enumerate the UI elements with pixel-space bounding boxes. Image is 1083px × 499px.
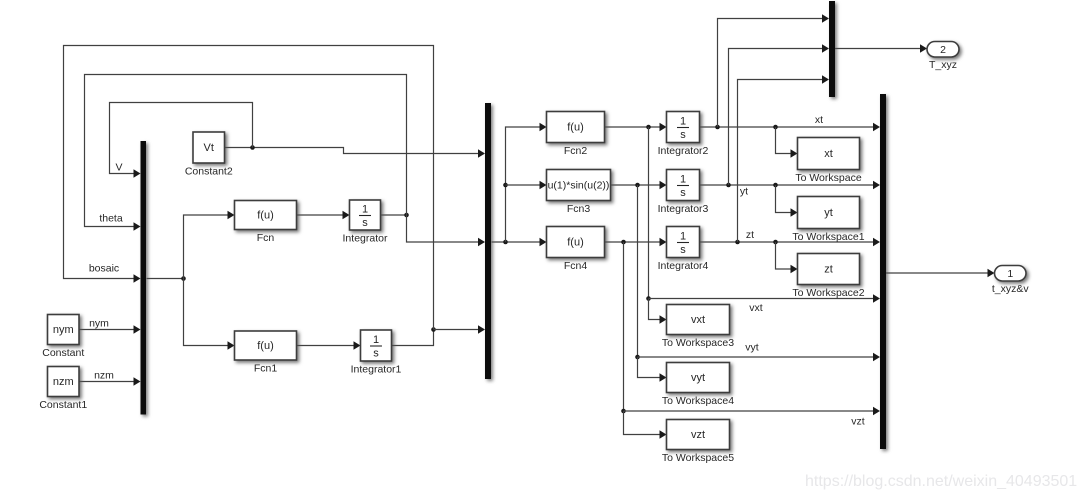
arrowhead into Fcn1 input — [228, 341, 235, 349]
constant Constant1 (nzm) — [48, 367, 80, 397]
svg-text:nym: nym — [89, 318, 109, 330]
node yt junction A — [726, 183, 731, 188]
svg-text:vyt: vyt — [745, 342, 759, 354]
svg-text:1: 1 — [680, 116, 686, 128]
arrowhead into Mux1 input V — [134, 169, 141, 177]
to-workspace block To Workspace4 (vyt) — [667, 363, 730, 393]
wire Fcn2 to Integrator2 — [605, 126, 666, 128]
svg-text:u(1)*sin(u(2)): u(1)*sin(u(2)) — [548, 180, 610, 192]
node vyt junction — [635, 355, 640, 360]
arrowhead into Mux2 input 2 — [478, 238, 485, 246]
wire V feedback loop to Mux1 — [110, 103, 253, 174]
integrator block Integrator — [350, 200, 381, 230]
arrowhead into Integrator input — [343, 211, 350, 219]
arrowhead into Fcn3 input — [540, 181, 547, 189]
arrowhead into Mux1 input bosaic — [134, 274, 141, 282]
svg-text:theta: theta — [99, 213, 123, 225]
svg-text:1: 1 — [680, 174, 686, 186]
integrator block Integrator2 — [667, 112, 700, 143]
wire yt drop to To Workspace1 — [776, 185, 797, 213]
svg-text:Integrator4: Integrator4 — [658, 260, 709, 272]
wire Mux2 output trunk to Fcn4 — [492, 241, 546, 243]
to-workspace block To Workspace2 (zt) — [798, 254, 860, 285]
svg-text:yt: yt — [740, 186, 748, 198]
svg-text:1: 1 — [373, 334, 379, 346]
svg-text:bosaic: bosaic — [89, 263, 119, 275]
svg-text:Fcn2: Fcn2 — [564, 145, 588, 157]
wire Integrator3 output yt row — [700, 184, 879, 186]
wire Fcn4 to Integrator4 — [605, 241, 666, 243]
arrowhead into Mux3 yt — [873, 181, 880, 189]
node Fcn3 output junction — [635, 183, 640, 188]
mux Mux3 (right bar) — [880, 94, 886, 449]
arrowhead into Fcn2 input — [540, 123, 547, 131]
wire vxt drop to To Workspace3 — [649, 299, 666, 320]
svg-text:Constant1: Constant1 — [39, 399, 87, 411]
to-workspace block To Workspace5 (vzt) — [667, 420, 730, 450]
outport 2 T_xyz — [927, 42, 959, 58]
arrowhead into Mux3 zt — [873, 238, 880, 246]
svg-text:Fcn3: Fcn3 — [567, 203, 591, 215]
wire zt drop to To Workspace2 — [776, 242, 797, 269]
arrowhead into To Workspace — [791, 149, 798, 157]
wire Integrator1 junction to Mux2 — [434, 329, 485, 331]
node Mux2 fanout junction — [503, 240, 508, 245]
svg-text:vyt: vyt — [691, 372, 705, 384]
wire Constant nym to Mux1 — [79, 329, 139, 331]
svg-text:To Workspace5: To Workspace5 — [662, 452, 734, 464]
arrowhead into Mux1 input nym — [134, 325, 141, 333]
svg-text:s: s — [373, 348, 379, 360]
to-workspace block To Workspace (xt) — [798, 138, 860, 170]
svg-text:To Workspace1: To Workspace1 — [792, 231, 864, 243]
arrowhead into Fcn input — [228, 211, 235, 219]
svg-text:Vt: Vt — [204, 142, 214, 154]
wire zt up to Mux4 — [738, 80, 828, 243]
svg-text:Integrator1: Integrator1 — [351, 364, 402, 376]
svg-text:1: 1 — [362, 204, 368, 216]
node fanout junction Fcn3 — [503, 183, 508, 188]
svg-text:s: s — [362, 217, 368, 229]
svg-text:f(u): f(u) — [257, 340, 274, 352]
arrowhead into To Workspace4 — [660, 373, 667, 381]
wire Fcn1 to Integrator1 — [297, 345, 359, 347]
wire Integrator output down to Mux2 — [407, 215, 485, 242]
svg-text:f(u): f(u) — [257, 210, 274, 222]
wire vxt branch down — [648, 127, 650, 299]
fcn block Fcn f(u) — [235, 201, 297, 230]
svg-text:T_xyz: T_xyz — [929, 59, 957, 71]
constant Constant (nym) — [48, 315, 80, 345]
node Integrator output junction — [404, 213, 409, 218]
arrowhead into Mux4 input 1 — [822, 14, 829, 22]
svg-text:nym: nym — [53, 324, 74, 336]
arrowhead into Mux3 vyt — [873, 353, 880, 361]
fcn block Fcn1 f(u) — [235, 331, 297, 360]
svg-text:To Workspace: To Workspace — [795, 172, 861, 184]
wire Fcn3 to Integrator3 — [611, 184, 666, 186]
node Integrator1 output junction — [431, 327, 436, 332]
wire Integrator4 output zt row — [700, 241, 879, 243]
mux Mux2 (middle bar) — [485, 103, 491, 379]
arrowhead into outport 1 — [988, 269, 995, 277]
fcn block Fcn3 u(1)*sin(u(2)) — [547, 170, 611, 201]
wire vzt branch down — [623, 242, 625, 411]
svg-text:nzm: nzm — [53, 376, 74, 388]
node zt junction B — [773, 240, 778, 245]
wire vxt to Demux bar — [649, 298, 879, 300]
wire Mux1 output trunk — [147, 278, 184, 280]
wire xt drop to To Workspace — [776, 127, 797, 154]
arrowhead into Integrator1 input — [354, 341, 361, 349]
wire Integrator2 output xt row — [700, 126, 879, 128]
wire Integrator1 output to junction — [392, 330, 434, 346]
svg-text:Constant2: Constant2 — [185, 166, 233, 178]
arrowhead into Integrator4 input — [660, 238, 667, 246]
mux Mux4 (top bar) — [829, 1, 835, 97]
node xt junction B — [773, 125, 778, 130]
fcn block Fcn4 f(u) — [547, 227, 605, 258]
svg-text:zt: zt — [746, 229, 754, 241]
mux Mux1 (left bar) — [141, 141, 147, 415]
wire xt up to Mux4 — [718, 19, 828, 128]
wire Fcn to Integrator — [297, 214, 348, 216]
arrowhead into To Workspace2 — [791, 265, 798, 273]
to-workspace block To Workspace3 (vxt) — [667, 305, 730, 335]
svg-text:2: 2 — [940, 44, 946, 56]
svg-text:vxt: vxt — [691, 314, 705, 326]
svg-text:vxt: vxt — [749, 302, 763, 314]
wire Integrator output junction branch — [381, 214, 407, 216]
arrowhead into Mux4 input 2 — [822, 44, 829, 52]
svg-text:Constant: Constant — [42, 347, 84, 359]
svg-text:V: V — [115, 162, 122, 174]
wire vyt branch down — [637, 185, 639, 357]
svg-text:Integrator2: Integrator2 — [658, 145, 709, 157]
svg-text:xt: xt — [815, 114, 823, 126]
wire vyt to Mux3 — [638, 356, 879, 358]
outport 1 t_xyz&amp;v — [995, 266, 1027, 282]
arrowhead into Integrator2 input — [660, 123, 667, 131]
arrowhead into Fcn4 input — [540, 238, 547, 246]
svg-text:xt: xt — [824, 148, 833, 160]
wire Vt output to Mux2 — [225, 148, 485, 154]
node yt junction B — [773, 183, 778, 188]
arrowhead into To Workspace3 — [660, 315, 667, 323]
arrowhead into Mux2 input 3 — [478, 325, 485, 333]
wire fanout vertical up — [506, 127, 546, 242]
wire Constant1 nzm to Mux1 — [79, 381, 139, 383]
wire Mux4 to outport 2 — [835, 48, 926, 50]
svg-text:Fcn1: Fcn1 — [254, 363, 278, 375]
integrator block Integrator1 — [361, 330, 392, 361]
svg-text:Integrator: Integrator — [343, 233, 388, 245]
svg-text:s: s — [680, 129, 686, 141]
svg-text:https://blog.csdn.net/weixin_4: https://blog.csdn.net/weixin_40493501 — [805, 473, 1077, 490]
node vxt junction — [646, 296, 651, 301]
svg-text:To Workspace4: To Workspace4 — [662, 395, 734, 407]
svg-text:s: s — [680, 244, 686, 256]
wire branch up to Fcn — [184, 215, 234, 279]
node zt junction A — [735, 240, 740, 245]
svg-text:f(u): f(u) — [567, 122, 584, 134]
node Fcn4 output junction — [621, 240, 626, 245]
svg-text:1: 1 — [1007, 268, 1013, 280]
svg-text:f(u): f(u) — [567, 237, 584, 249]
svg-text:t_xyz&v: t_xyz&v — [992, 283, 1030, 295]
node Vt output junction — [250, 145, 255, 150]
wire Mux3 to outport 1 — [886, 272, 993, 274]
arrowhead into outport 2 — [920, 44, 927, 52]
integrator block Integrator3 — [667, 170, 700, 201]
svg-text:Fcn: Fcn — [257, 232, 275, 244]
wire branch down to Fcn1 — [184, 279, 234, 346]
arrowhead into Mux4 input 3 — [822, 75, 829, 83]
svg-text:zt: zt — [824, 264, 833, 276]
to-workspace block To Workspace1 (yt) — [798, 197, 860, 229]
wire fanout to Fcn3 — [506, 184, 546, 186]
arrowhead into To Workspace5 — [660, 430, 667, 438]
arrowhead into Mux2 input 1 — [478, 149, 485, 157]
wire vzt drop to To Workspace5 — [624, 411, 666, 435]
svg-text:vzt: vzt — [691, 429, 705, 441]
svg-text:nzm: nzm — [94, 370, 114, 382]
arrowhead into Mux1 input nzm — [134, 377, 141, 385]
arrowhead into Integrator3 input — [660, 181, 667, 189]
arrowhead into Mux1 input theta — [134, 222, 141, 230]
svg-text:To Workspace3: To Workspace3 — [662, 337, 734, 349]
arrowhead into Mux3 vzt — [873, 407, 880, 415]
svg-text:1: 1 — [680, 231, 686, 243]
svg-text:To Workspace2: To Workspace2 — [792, 287, 864, 299]
node Mux1 output junction — [181, 276, 186, 281]
node xt junction A — [715, 125, 720, 130]
constant Constant2 (Vt) — [193, 132, 225, 163]
svg-text:vzt: vzt — [851, 416, 865, 428]
wire vzt to Mux3 — [624, 410, 879, 412]
wire bosaic feedback loop to Mux1 — [64, 46, 434, 330]
svg-text:Fcn4: Fcn4 — [564, 260, 588, 272]
node Fcn2 output junction — [646, 125, 651, 130]
wire theta feedback loop to Mux1 — [85, 75, 407, 227]
wire yt up to Mux4 — [729, 49, 828, 186]
integrator block Integrator4 — [667, 227, 700, 258]
svg-text:yt: yt — [824, 207, 833, 219]
svg-text:s: s — [680, 187, 686, 199]
svg-text:Integrator3: Integrator3 — [658, 203, 709, 215]
arrowhead into Mux3 xt — [873, 123, 880, 131]
node vzt junction — [621, 409, 626, 414]
wire vyt drop to To Workspace4 — [638, 357, 666, 378]
fcn block Fcn2 f(u) — [547, 112, 605, 143]
arrowhead into To Workspace1 — [791, 208, 798, 216]
arrowhead into Mux3 vxt — [873, 294, 880, 302]
